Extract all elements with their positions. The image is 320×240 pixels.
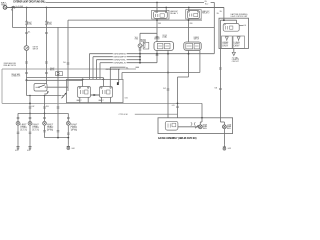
svg-text:RELAY 1: RELAY 1 <box>170 12 178 15</box>
wire: switch feed down <box>26 80 28 95</box>
node (30,103.4) <box>29 103 31 105</box>
svg-text:GRN/RED: GRN/RED <box>113 54 127 56</box>
connector tick x26.5 y73 <box>25 72 28 73</box>
caption strip bottom <box>158 137 197 140</box>
node (223.9,20.2) <box>223 19 225 21</box>
node (188.8,7.4) <box>188 7 190 9</box>
title strip: EXTERIOR LIGHT CIRCUIT <box>13 1 45 4</box>
node fan x44.5 <box>44 113 46 115</box>
ground G201 <box>16 145 19 150</box>
connector tick x46.4 y62.5 <box>45 62 48 63</box>
wire label leader y=114.2 <box>119 114 178 116</box>
node bus-junction x12.4 <box>12 7 14 9</box>
relay box 1 outline <box>152 10 169 19</box>
fuse No.47 on x=26.5 <box>26 21 28 25</box>
headlight bulb x=44.5 <box>43 121 47 125</box>
under-dash fuse/relay box left edge <box>1 69 3 103</box>
connector tick x44.5 y118 <box>43 117 46 118</box>
svg-text:(15A): (15A) <box>28 23 32 26</box>
wire: bottom tie y=137.6 <box>45 137 69 139</box>
svg-text:P: P <box>144 47 146 49</box>
wire: x=188.8 from bus <box>188 7 190 10</box>
connector tick x157 y55 <box>156 54 159 55</box>
node (166.2,7.4) <box>165 7 167 9</box>
switch A cells <box>157 43 170 48</box>
connector tick x44.5 y107.5 <box>43 107 46 108</box>
wire x=26.5 below switch <box>26 50 28 80</box>
switch diagonal in box C <box>195 125 198 128</box>
label W-L left of box D <box>217 13 220 15</box>
wire: below bulb x18 <box>17 125 19 144</box>
relay drops to box bottom <box>80 97 111 102</box>
svg-text:CIRCUIT: CIRCUIT <box>232 61 239 63</box>
svg-text:G401: G401 <box>71 148 74 150</box>
arrow to taillights <box>232 52 235 55</box>
connector tick x140 y49.5 <box>139 49 142 50</box>
connector tick x30 y107.5 <box>29 107 32 108</box>
label x68 <box>63 62 66 64</box>
wire: drop x=68 from y=20.1 <box>67 20 69 91</box>
wire: row y=53.7 <box>89 53 214 55</box>
wire: below bulb x30 <box>29 125 31 144</box>
svg-text:LIGHT: LIGHT <box>20 128 26 130</box>
to-taillights text <box>232 56 240 62</box>
svg-text:W-L: W-L <box>205 1 208 3</box>
fuse label No.44 <box>48 22 52 26</box>
wire: below bulb x44.5 <box>44 125 46 137</box>
svg-text:RIGHT: RIGHT <box>32 124 38 126</box>
svg-text:C725 G-W: C725 G-W <box>119 114 128 116</box>
wire: fan y=113.4 <box>18 112 68 114</box>
node (202,117.8) <box>201 117 203 119</box>
relay 2 label <box>202 10 209 15</box>
svg-text:RIGHT: RIGHT <box>71 124 77 126</box>
node pin x82.6 <box>82 79 84 81</box>
svg-text:(LO): (LO) <box>32 129 39 131</box>
wire: x=118.7 stub <box>118 69 120 83</box>
wire: x=223.9 into box D <box>223 18 225 20</box>
svg-text:R-B: R-B <box>215 87 218 89</box>
connector tick x26.5 y33 <box>25 32 28 33</box>
ignition switch <box>24 46 29 51</box>
svg-text:W-L: W-L <box>28 31 31 33</box>
svg-text:TERY: TERY <box>1 4 8 6</box>
svg-text:No.2: No.2 <box>205 4 208 6</box>
wire from DRL relay right <box>239 25 246 27</box>
cell1 text <box>222 41 229 47</box>
connector tick x220.5 y89 <box>219 88 222 89</box>
terminal square <box>117 82 119 85</box>
wire: bulb column x=18 <box>17 113 19 121</box>
fuse label No.47 <box>28 22 32 26</box>
wire: x=202 drop to box C <box>201 103 203 117</box>
svg-text:(LO): (LO) <box>20 129 27 131</box>
relay 1 label <box>170 10 178 15</box>
svg-text:SWITCH: SWITCH <box>33 48 39 50</box>
node (140,56.7) <box>139 56 141 58</box>
connector tick x68.3 y133.6 <box>67 133 70 134</box>
svg-text:GAUGE ASSEMBLY (1996-98 CIVIC: GAUGE ASSEMBLY (1996-98 CIVIC EX) <box>158 137 197 140</box>
DRL control unit box <box>219 18 249 48</box>
switch A side label <box>162 35 167 39</box>
label C571 right of box B <box>125 97 129 99</box>
wire label row 4 <box>113 63 127 65</box>
label W-L x26.5 <box>28 31 31 33</box>
svg-text:G402: G402 <box>228 148 231 150</box>
wire: x=82.6 into box <box>82 79 84 86</box>
wire: x=220.4 jog to bulb2 <box>220 118 224 125</box>
svg-text:G-W: G-W <box>172 105 175 107</box>
DRL cell 1 <box>222 36 233 48</box>
connector tick x58 y107.5 <box>57 107 60 108</box>
svg-text:LIGHT: LIGHT <box>47 128 53 130</box>
svg-text:EXTERIOR LIGHT CIRCUIT (W/O DR: EXTERIOR LIGHT CIRCUIT (W/O DRL) <box>13 1 45 4</box>
node (58,137.6) <box>57 137 59 139</box>
wire: x=110.3 into relay R2 <box>109 67 111 86</box>
node (157,20.1) <box>156 19 158 21</box>
switch A label <box>154 37 160 41</box>
battery label <box>1 1 8 6</box>
wire: row y=27.4 <box>12 26 214 28</box>
label RED x188.5 <box>190 23 193 25</box>
wire: x=166.2 from bus <box>165 7 167 11</box>
svg-text:UNIT: UNIT <box>222 45 228 47</box>
wire: jog y=77 to x=177.5 <box>178 76 189 78</box>
wire: drop x=30 to fan <box>29 96 31 114</box>
wire: drop x=12.4 to row y=27.4 <box>11 7 13 27</box>
wire: drop x=46.4 upper <box>45 7 47 21</box>
connector tick x46.4 y33 <box>45 32 48 33</box>
label No.41 80A <box>16 5 23 8</box>
wire: row y=62.7 <box>100 62 157 64</box>
switch B label <box>194 37 200 41</box>
connector tick x46.4 y73 <box>45 72 48 73</box>
node junction (26.5,80.3) <box>26 79 28 81</box>
label x168 <box>163 88 166 90</box>
ground G402 <box>223 145 226 151</box>
node bus-junction x26.6 <box>26 7 28 9</box>
wire: bulb column x=68.3 <box>67 113 69 121</box>
wire x=46.4 mid <box>45 25 47 84</box>
diode arrow cell1 <box>225 37 228 41</box>
inner label relay/connector <box>11 73 21 78</box>
svg-text:W-L: W-L <box>126 67 129 69</box>
wire comp to bulb1 <box>178 126 199 128</box>
connector tick x220.5 y68.5 <box>219 68 222 69</box>
wire: x=220.5 long drop <box>219 20 221 118</box>
svg-text:R-W: R-W <box>32 106 35 108</box>
node (157,2.4) <box>156 2 158 4</box>
label G402 <box>228 148 231 150</box>
wire: bulb column x=30 <box>29 113 31 121</box>
label x220.5 <box>215 87 218 89</box>
connector tick x18 y118 <box>17 117 20 118</box>
fuse F main 80A on bus <box>12 6 15 8</box>
wire: x=199.9 below B <box>199 50 201 72</box>
bulb label x=18 <box>20 124 27 131</box>
battery <box>3 6 8 10</box>
wire: y=95.5 row <box>27 95 62 97</box>
connector tick x26.5 y62.5 <box>25 62 28 63</box>
svg-text:LOW: LOW <box>227 124 232 126</box>
wire: y=20.2 inside box D <box>220 19 236 21</box>
svg-text:LIGHTS: LIGHTS <box>232 59 239 61</box>
ignition switch label <box>33 46 39 50</box>
svg-text:G201: G201 <box>15 150 18 152</box>
wire: row y=56.7 <box>93 56 140 58</box>
wire: x=140 lower <box>139 48 141 63</box>
connector tick x30 y132.7 <box>29 132 32 133</box>
ground G202 <box>28 145 31 150</box>
svg-text:GRN/BLK: GRN/BLK <box>113 63 127 65</box>
label at x137 <box>135 37 139 41</box>
wire: row y=59.7 <box>96 59 140 61</box>
connector tick x58 y131.3 <box>57 131 60 132</box>
ground G401 <box>67 144 70 150</box>
svg-text:LEFT: LEFT <box>47 124 53 126</box>
wire: y=67.2 pocket <box>110 66 139 68</box>
svg-text:LIGHT: LIGHT <box>32 128 38 130</box>
bulb taillight 1 <box>198 125 202 129</box>
node (188.5,20.1) <box>188 19 190 21</box>
wire: drop x=26.5 upper <box>26 7 28 21</box>
connector tick x157 y37.3 <box>156 37 159 38</box>
combination light switch B <box>184 42 201 50</box>
connector tick x18 y132.7 <box>17 132 20 133</box>
svg-text:G202: G202 <box>27 150 30 152</box>
relay R2 in box B <box>100 87 113 98</box>
wire: bulb column x=44.5 <box>44 113 46 121</box>
svg-text:(HI): (HI) <box>47 129 55 131</box>
svg-text:SWITCH: SWITCH <box>194 39 200 41</box>
svg-text:No.41 (80A): No.41 (80A) <box>16 5 23 8</box>
wire: x=188.5 below B <box>188 50 190 77</box>
node (168,53.7) <box>167 53 169 55</box>
bulb label x=30 <box>32 124 39 131</box>
relay micro labels <box>77 99 104 102</box>
relay box 2 outline <box>186 10 202 19</box>
node bus-junction x46.4 <box>46 7 48 9</box>
box C inner component <box>165 121 178 130</box>
wire: x=140 upper <box>139 33 141 44</box>
wire: row y=72.5 <box>122 72 200 74</box>
wire: branch y=33.3 <box>140 32 157 34</box>
wire: drop x=177.5 <box>177 77 179 118</box>
connector tick x68 y63.5 <box>67 63 70 64</box>
dimmer block <box>141 39 149 49</box>
svg-text:HIGH: HIGH <box>203 124 207 126</box>
node (140,59.7) <box>139 59 141 61</box>
wire: stub x=157 below A <box>156 50 158 62</box>
wire between relays + arrow <box>91 94 100 96</box>
bulb1 label <box>203 124 209 129</box>
svg-text:LEFT: LEFT <box>20 124 26 126</box>
under-dash fuse/relay box top edge <box>2 68 136 70</box>
fuse box around x=58 <box>56 72 63 76</box>
wire: drop x=58 <box>57 27 59 137</box>
DRL inner relay <box>223 24 239 32</box>
connector tick x30 y118 <box>29 117 32 118</box>
diode arrow cell2 <box>237 37 240 41</box>
fuse No.44 on x=46.4 <box>46 21 48 25</box>
bulb2 label <box>227 124 233 129</box>
svg-text:R-B: R-B <box>46 106 49 108</box>
wire: drop x=100 into relay box <box>99 63 101 80</box>
svg-text:W-L: W-L <box>135 37 138 39</box>
headlight bulb x=18 <box>16 121 20 125</box>
wire: below bulb x68.3 <box>67 125 69 144</box>
wire: below box D x=233.8 <box>233 48 235 52</box>
node pin x103.4 <box>103 79 105 81</box>
wire label row 3 <box>113 60 126 62</box>
svg-text:W-L: W-L <box>220 11 223 13</box>
node (44.5,95.5) <box>44 95 46 97</box>
wire: switch output y=87.2 <box>47 86 68 88</box>
wire: drop x=157 from relay1 <box>156 19 158 42</box>
headlight bulb x=68.3 <box>66 121 70 125</box>
relay R1 in box B <box>78 87 91 98</box>
wire: main battery bus y=7.4 <box>7 6 224 8</box>
wire: x=122 into box B <box>121 73 123 80</box>
bulb label x=68.3 <box>71 124 79 131</box>
fuse in box x=58 <box>57 72 59 76</box>
svg-text:LIGHT CONTROL UNIT: LIGHT CONTROL UNIT <box>231 16 248 18</box>
DRL cell 2 <box>233 36 244 48</box>
wire: drop x=93 into relay box <box>92 57 94 80</box>
relay box label <box>50 67 55 72</box>
svg-text:R-W: R-W <box>163 88 166 90</box>
label B+ <box>11 9 13 11</box>
label W-L near top break <box>220 11 223 13</box>
wire: bulb2 to ground <box>223 129 225 145</box>
wire: right drop x=214.3 <box>213 2 215 53</box>
connector tick x68.3 y118 <box>67 117 70 118</box>
wire x=26.5 to ignition switch <box>26 25 28 46</box>
bulb taillight 2 <box>223 125 227 129</box>
wire: x=46.4 into switch <box>45 83 47 86</box>
wire: x=168 comp A out <box>167 50 169 118</box>
label on pocket wire <box>126 67 129 69</box>
lighting switch component <box>34 84 47 92</box>
under-dash box label <box>4 62 17 67</box>
node (140,53.7) <box>139 53 141 55</box>
wire: drop x=44.5 to fan <box>44 96 46 114</box>
node (30,95.5) <box>29 95 31 97</box>
relay 2 component <box>187 11 199 19</box>
passing beam circle <box>138 44 142 48</box>
wire: bus corner down x=223.9 <box>223 7 225 18</box>
combination light switch A <box>154 42 174 51</box>
svg-text:CONNECTOR: CONNECTOR <box>11 76 20 78</box>
label W-L on top wire <box>205 1 209 5</box>
wire: x=103.4 into box <box>102 78 104 87</box>
svg-text:LIGHT: LIGHT <box>71 128 77 130</box>
wire: x=202 jog to bulb1 <box>200 118 202 125</box>
wire: drop x=188.5 from relay2 <box>188 19 190 42</box>
wire circle to dimmer <box>142 45 143 47</box>
svg-text:SWITCH: SWITCH <box>154 39 160 41</box>
wire label row 2 <box>113 57 126 59</box>
svg-text:IG1: IG1 <box>244 25 247 27</box>
headlight bulb x=30 <box>28 121 32 125</box>
connector tick x177.5 y106.8 <box>176 106 179 107</box>
node fan x30 <box>29 113 31 115</box>
tick labels bottom exits <box>32 106 49 108</box>
connector marks in box C <box>191 122 196 125</box>
wire: x=236.6 into comp <box>236 20 238 23</box>
svg-text:(HI): (HI) <box>71 129 79 131</box>
wire: y=80.3 feed <box>27 79 83 81</box>
bulb label x=44.5 <box>47 124 55 131</box>
ground labels <box>15 148 75 152</box>
svg-text:GRN/YEL: GRN/YEL <box>113 60 126 62</box>
label RED x157 <box>158 23 161 25</box>
relay 1 component <box>154 11 168 18</box>
node (168,72.5) <box>167 72 169 74</box>
taillight relay box C <box>158 118 233 134</box>
auto-return arrow <box>45 91 49 94</box>
DRL box label <box>231 13 249 18</box>
svg-text:(15A): (15A) <box>48 23 52 26</box>
under-hood relay box B <box>66 79 123 102</box>
under-dash fuse/relay box bottom edge <box>2 102 202 104</box>
svg-text:RELAY BOX: RELAY BOX <box>4 64 17 67</box>
wire: drop x=89.4 into relay box <box>88 54 90 80</box>
node (140,62.7) <box>139 62 141 64</box>
svg-text:W-L: W-L <box>217 13 220 15</box>
node (157,53.7) <box>156 53 158 55</box>
wire: x=157 from top line <box>156 2 158 11</box>
cell2 text <box>234 41 241 47</box>
transistor symbol at box B left <box>62 93 67 98</box>
wire: top feed y=2.4 <box>46 1 215 3</box>
svg-text:C571: C571 <box>125 97 129 99</box>
connector tick x44.5 y131.3 <box>43 131 46 132</box>
node (177.5,103.4) <box>177 103 179 105</box>
wire: row y=20.1 <box>68 19 202 21</box>
wire: y=77.5 feed <box>27 77 104 79</box>
node (188.5,53.7) <box>188 53 190 55</box>
switch B cells <box>186 43 200 49</box>
svg-text:GRN/WHT: GRN/WHT <box>113 57 126 59</box>
node (68.3,137.6) <box>67 137 69 139</box>
wire: drop x=96.4 into relay box <box>95 60 97 80</box>
label x177.5 <box>172 105 175 107</box>
under-dash label mid <box>106 68 121 71</box>
connector tick x168 y89.5 <box>167 89 170 90</box>
wire label row 1 <box>113 54 127 56</box>
svg-text:UNIT: UNIT <box>234 45 240 47</box>
svg-text:RELAY 2: RELAY 2 <box>202 12 209 15</box>
